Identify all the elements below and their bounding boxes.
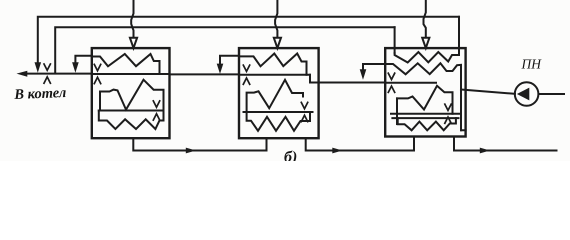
wire L2 second drain header <box>55 27 394 73</box>
arrow drain2 <box>217 64 224 74</box>
steam arrow A (open) <box>130 38 137 48</box>
heater2 middle coil <box>247 80 303 112</box>
heater2 top coil <box>239 54 307 75</box>
heater3 bottom coil <box>398 118 456 130</box>
drain loop from heater 1 <box>75 56 91 63</box>
heater2 feed pipe <box>239 74 310 76</box>
heater2 right valve marks <box>301 102 307 121</box>
bottom cascade seg2 <box>306 137 414 151</box>
arrow cascade2 <box>332 148 342 154</box>
wire L2 drop into heater3 row1 <box>394 27 396 53</box>
steam line A <box>131 0 133 38</box>
heater block 1 body <box>92 48 170 138</box>
valve marks on feed line <box>44 64 50 83</box>
heater1 bottom coil <box>99 111 164 130</box>
heater3 middle coil <box>396 98 398 124</box>
feed line to boiler <box>24 73 92 75</box>
wire L1 top drain header <box>38 17 459 62</box>
heater1 middle coil <box>100 80 164 111</box>
heater2 lower pipe <box>244 111 313 113</box>
wire L1 drop into heater3 top <box>458 17 460 55</box>
arrow L1 down onto feed line <box>35 62 42 73</box>
steam line B <box>275 0 277 38</box>
heater1 left valve marks <box>94 64 100 83</box>
heater3 right valve marks <box>445 104 451 123</box>
suction line heater3 to pump <box>461 90 515 94</box>
svg-text:б): б) <box>284 149 297 161</box>
pump impeller triangle <box>517 88 529 101</box>
svg-text:ПН: ПН <box>521 56 543 71</box>
heater block 3 body <box>385 48 465 136</box>
drain loop from heater 3 <box>363 64 385 69</box>
heater3 lower header <box>392 117 458 119</box>
bottom cascade seg3 <box>454 137 557 151</box>
heater1 top coil <box>92 54 160 74</box>
heater block 2 body <box>239 48 319 138</box>
steam arrow B (open) <box>274 38 281 48</box>
heater1 feed pipe <box>92 73 170 75</box>
steam arrow C (open) <box>422 38 429 48</box>
steam line C <box>424 0 426 38</box>
arrow to boiler <box>17 71 28 77</box>
bottom cascade seg1 <box>133 138 266 150</box>
arrow cascade3 <box>480 148 490 154</box>
feed line heater2 to heater3 <box>310 75 385 83</box>
arrow cascade1 <box>186 148 196 154</box>
heater3 top coil row1 <box>395 52 459 63</box>
feed line heater1 to heater2 <box>170 73 240 75</box>
heater3 top coil row2 <box>385 63 461 130</box>
svg-text:В котел: В котел <box>13 85 67 103</box>
heater3 feed pipe <box>385 82 436 84</box>
heater3 lower pipe <box>391 114 466 131</box>
heater2 left valve marks <box>243 65 249 84</box>
pump discharge line <box>539 93 565 95</box>
heater2 bottom coil <box>247 112 310 131</box>
pump PN circle <box>515 82 539 106</box>
arrow drain3 <box>360 69 367 80</box>
heater1 lower pipe <box>99 110 164 112</box>
drain loop from heater 2 <box>220 56 239 64</box>
heater3 left valve marks <box>388 73 394 92</box>
heater1 right valve marks <box>153 101 159 120</box>
arrow drain1 <box>72 62 79 73</box>
